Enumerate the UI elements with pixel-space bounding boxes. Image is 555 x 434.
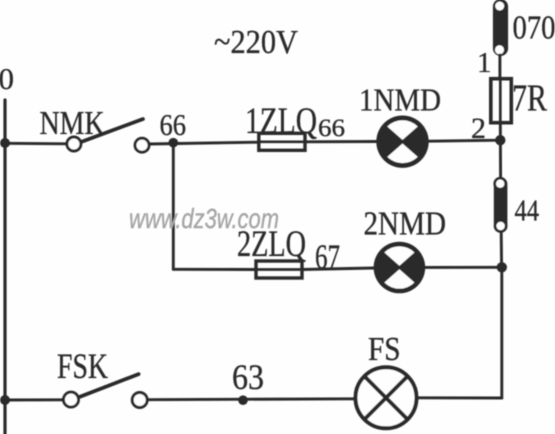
wire branch 66 down [172, 143, 175, 270]
svg-text:7R: 7R [512, 78, 548, 120]
connector 44 [493, 177, 539, 233]
switch FSK [57, 346, 147, 408]
svg-text:FS: FS [368, 331, 401, 368]
node 63 [232, 357, 264, 405]
svg-text:67: 67 [315, 238, 340, 277]
fuse 7R [491, 78, 548, 123]
node 2 [471, 112, 505, 145]
svg-text:070: 070 [513, 10, 555, 47]
svg-text:2NMD: 2NMD [364, 206, 447, 243]
watermark [129, 203, 279, 234]
label ~220V [214, 24, 298, 61]
node 67 [315, 238, 340, 277]
svg-text:1: 1 [477, 47, 492, 79]
svg-text:~220V: ~220V [214, 24, 298, 61]
wire row2 fuse to lamp [302, 268, 374, 270]
svg-text:66: 66 [160, 107, 187, 142]
wire row2 left [173, 268, 256, 271]
node 1 [477, 47, 492, 79]
node junction left row1 [0, 138, 10, 148]
wire row1 left [5, 142, 66, 145]
wire row3 switch to lamp [148, 397, 356, 401]
switch NMK [40, 105, 150, 152]
lamp 1NMD [359, 82, 441, 168]
node 66 [160, 107, 187, 148]
wire 44 to lower junction [500, 233, 503, 268]
connector 070 [493, 0, 555, 56]
svg-text:0: 0 [0, 61, 14, 96]
wire row3 right [418, 396, 502, 399]
svg-text:www.dz3w.com: www.dz3w.com [129, 203, 279, 234]
lamp FS [356, 331, 417, 428]
node 0 [0, 61, 14, 96]
fuse 1ZLQ [245, 101, 345, 150]
wire row1 lamp to right rail [429, 140, 501, 141]
svg-text:FSK: FSK [57, 346, 108, 386]
wire right rail down [500, 267, 503, 398]
svg-text:1NMD: 1NMD [359, 82, 441, 118]
svg-text:66: 66 [318, 115, 345, 142]
wire row3 left [5, 398, 63, 401]
svg-text:63: 63 [232, 357, 264, 397]
wire row1 switch to fuse [150, 142, 260, 144]
wire row1 fuse to lamp [305, 140, 377, 143]
lamp 2NMD [364, 206, 447, 294]
fuse 2ZLQ [237, 224, 306, 278]
node junction left row3 [0, 395, 10, 405]
wire 7R to node2 [499, 123, 502, 180]
node junction right row2 [497, 262, 507, 272]
svg-text:2: 2 [471, 112, 486, 145]
wire left rail [3, 100, 6, 434]
wire 070 to 7R [498, 55, 501, 79]
wire row2 lamp to right rail [425, 266, 502, 269]
svg-text:44: 44 [515, 193, 540, 228]
